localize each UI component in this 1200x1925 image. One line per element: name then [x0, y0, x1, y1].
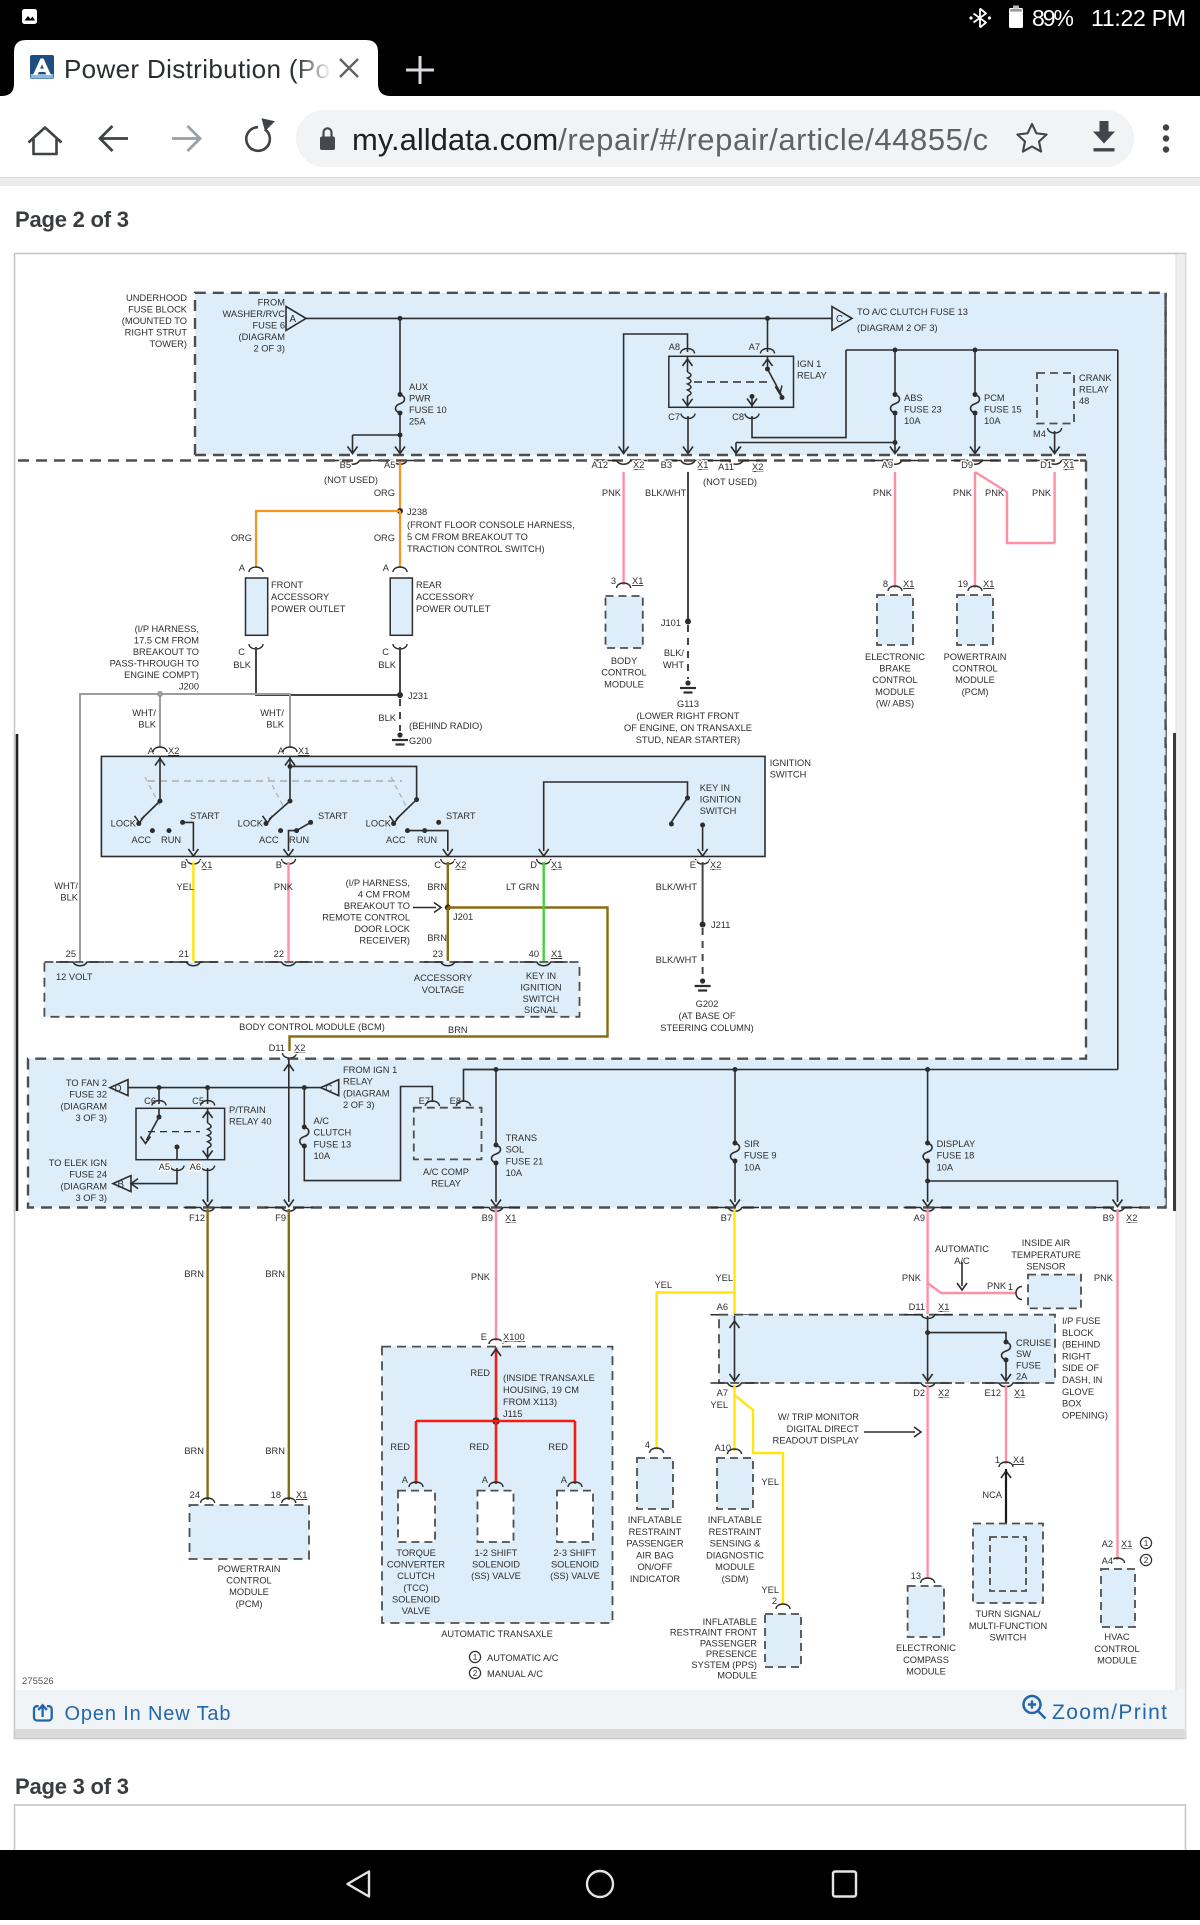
HVAC control module box: [1101, 1569, 1135, 1627]
svg-text:(TCC): (TCC): [403, 1583, 428, 1593]
svg-text:X2: X2: [752, 462, 763, 472]
svg-text:TEMPERATURE: TEMPERATURE: [1011, 1250, 1081, 1260]
fuse F21 TRANS SOL: [494, 1143, 499, 1148]
pin A6 relay: [190, 1162, 215, 1172]
switch 3 feed: [290, 766, 419, 802]
svg-text:RUN: RUN: [289, 835, 309, 845]
svg-text:AUTOMATIC: AUTOMATIC: [935, 1244, 989, 1254]
svg-text:18: 18: [271, 1490, 281, 1500]
svg-text:X2: X2: [938, 1388, 949, 1398]
fan bus wire: [128, 1085, 321, 1090]
interior dashed box top edge: [18, 459, 1086, 461]
wire RED E to J115: [491, 1348, 501, 1422]
switch 2 contacts: [264, 820, 314, 833]
svg-text:X1: X1: [505, 1213, 516, 1223]
android nav bar: [0, 1850, 1200, 1920]
svg-text:BLOCK: BLOCK: [1062, 1328, 1094, 1338]
wire BLK/WHT B3 to J101: [687, 472, 689, 622]
svg-text:RELAY: RELAY: [343, 1077, 373, 1087]
hvac circled 2: [1140, 1554, 1151, 1565]
connector C triangle from IGN1: [321, 1080, 339, 1096]
svg-text:(DIAGRAM: (DIAGRAM: [61, 1101, 108, 1111]
svg-text:PWR: PWR: [409, 394, 431, 404]
svg-text:C: C: [434, 860, 441, 870]
svg-text:10A: 10A: [506, 1168, 523, 1178]
svg-text:FUSE 15: FUSE 15: [984, 405, 1022, 415]
wire DISPLAY feed: [927, 1070, 929, 1144]
svg-text:12 VOLT: 12 VOLT: [56, 972, 93, 982]
svg-text:A: A: [561, 1475, 568, 1485]
wire AC clutch out jog: [304, 1087, 432, 1181]
svg-text:D2: D2: [913, 1388, 925, 1398]
pin D X1 ignition: [530, 859, 562, 870]
wire NCA to turn signal switch: [1005, 1469, 1007, 1537]
svg-text:8: 8: [883, 579, 888, 589]
SDM box: [717, 1458, 753, 1509]
svg-text:A: A: [278, 746, 285, 756]
svg-text:3 OF 3): 3 OF 3): [75, 1193, 107, 1203]
pin 1 sensor: [1008, 1282, 1022, 1300]
svg-text:CONTROL: CONTROL: [1094, 1644, 1139, 1654]
key-in wiper: [669, 798, 688, 827]
svg-text:Page 3 of 3: Page 3 of 3: [15, 1774, 129, 1799]
pin A9 middle: [904, 1208, 952, 1224]
pin F9: [265, 1208, 313, 1224]
svg-text:A11: A11: [718, 462, 734, 472]
svg-text:SIR: SIR: [744, 1139, 760, 1149]
svg-text:1: 1: [1144, 1539, 1149, 1548]
pin 1 X4: [995, 1455, 1025, 1478]
svg-text:RELAY: RELAY: [1079, 385, 1109, 395]
IP fuse block box: [719, 1315, 1055, 1383]
pin 22: [265, 949, 313, 966]
svg-text:X2: X2: [710, 860, 721, 870]
footer bar: [15, 1690, 1184, 1729]
svg-text:MANUAL A/C: MANUAL A/C: [487, 1669, 543, 1679]
svg-text:YEL: YEL: [715, 1273, 733, 1283]
svg-text:SENSING &: SENSING &: [710, 1539, 761, 1549]
wire PNK D2 to compass: [926, 1385, 928, 1579]
zoom print icon: [1024, 1696, 1046, 1719]
svg-text:A: A: [383, 563, 390, 573]
fuse F13 A/C clutch: [302, 1125, 307, 1130]
wire BRN J201 jog to D11: [290, 908, 608, 1052]
svg-text:1-2 SHIFT: 1-2 SHIFT: [475, 1548, 518, 1558]
svg-text:22: 22: [274, 949, 284, 959]
svg-text:C7: C7: [668, 412, 680, 422]
node J211: [700, 922, 706, 928]
home icon: [29, 128, 62, 155]
fuse F15 PCM wire: [974, 350, 976, 395]
svg-text:STEERING COLUMN): STEERING COLUMN): [660, 1023, 754, 1033]
switch 1 wiper: [135, 801, 161, 823]
svg-text:BRN: BRN: [448, 1025, 468, 1035]
svg-text:FUSE BLOCK: FUSE BLOCK: [128, 305, 188, 315]
svg-text:PNK: PNK: [471, 1272, 491, 1282]
svg-text:2-3 SHIFT: 2-3 SHIFT: [554, 1548, 597, 1558]
wire M4 to D1: [1050, 431, 1060, 454]
svg-text:INSIDE AIR: INSIDE AIR: [1022, 1238, 1071, 1248]
wire SIR to B7: [730, 1161, 740, 1207]
svg-text:E: E: [481, 1332, 487, 1342]
ignition switch box: [101, 756, 765, 856]
svg-text:A2: A2: [1102, 1539, 1113, 1549]
svg-text:OPENING): OPENING): [1062, 1410, 1108, 1420]
svg-text:A6: A6: [190, 1162, 201, 1172]
svg-text:B7: B7: [721, 1213, 732, 1223]
svg-text:A7: A7: [717, 1388, 728, 1398]
switch 2 output to B: [284, 831, 297, 856]
wire branch to B5: [348, 435, 401, 454]
svg-text:FUSE 18: FUSE 18: [937, 1151, 975, 1161]
svg-text:Power Distribution (Po: Power Distribution (Po: [64, 54, 330, 84]
pin 23: [424, 949, 472, 966]
svg-text:11:22 PM: 11:22 PM: [1091, 5, 1186, 31]
menu dots icon: [1163, 124, 1169, 152]
svg-text:AUTOMATIC TRANSAXLE: AUTOMATIC TRANSAXLE: [441, 1629, 553, 1639]
svg-text:IGNITION: IGNITION: [520, 982, 561, 992]
svg-text:MODULE: MODULE: [604, 679, 644, 689]
aux pwr fuse 10 wire: [399, 318, 401, 394]
wire ORG J238 branch: [256, 511, 400, 568]
svg-text:C6: C6: [144, 1096, 156, 1106]
pin D11 X1 fuse block: [904, 1302, 952, 1318]
wire C8 jog to bus: [752, 350, 846, 438]
svg-text:PNK: PNK: [274, 882, 294, 892]
svg-text:40: 40: [529, 949, 539, 959]
svg-text:A12: A12: [591, 460, 608, 470]
svg-text:DIAGNOSTIC: DIAGNOSTIC: [706, 1550, 764, 1560]
svg-text:CONTROL: CONTROL: [226, 1576, 271, 1586]
pin D11 X2: [269, 1043, 306, 1058]
svg-text:X4: X4: [1013, 1455, 1024, 1465]
svg-text:D11: D11: [269, 1043, 285, 1053]
footer bottom shade: [15, 1729, 1184, 1738]
svg-text:AUX: AUX: [409, 382, 428, 392]
connector C triangle to A/C clutch fuse 13: [832, 307, 852, 331]
svg-text:24: 24: [190, 1490, 200, 1500]
accessory bus wire: [464, 1067, 1118, 1072]
svg-text:WHT: WHT: [663, 660, 684, 670]
connector D triangle: [110, 1080, 128, 1096]
body control module component box: [606, 596, 643, 648]
svg-text:INFLATABLE: INFLATABLE: [708, 1515, 762, 1525]
wire WHT/BLK J200 to A X1: [160, 694, 290, 748]
interior left boundary line: [16, 734, 19, 1211]
svg-text:BODY: BODY: [611, 656, 637, 666]
svg-text:PASSENGER: PASSENGER: [626, 1539, 683, 1549]
svg-text:ELECTRONIC: ELECTRONIC: [865, 652, 925, 662]
svg-text:FUSE 13: FUSE 13: [314, 1139, 352, 1149]
wire YEL B7 to A6: [733, 1209, 735, 1314]
pin A7 fuse block: [711, 1383, 759, 1398]
svg-text:READOUT DISPLAY: READOUT DISPLAY: [773, 1436, 859, 1446]
pin A front outlet: [239, 563, 263, 573]
wire RED to 2-3: [574, 1421, 577, 1484]
svg-text:2A: 2A: [1016, 1372, 1028, 1382]
automatic AC pointer arrow: [957, 1262, 967, 1290]
wire A11 tap: [731, 440, 898, 454]
pin B5: [329, 460, 377, 470]
svg-text:89%: 89%: [1032, 5, 1074, 31]
svg-text:RIGHT STRUT: RIGHT STRUT: [125, 328, 188, 338]
svg-text:FUSE 24: FUSE 24: [69, 1170, 107, 1180]
svg-text:(PCM): (PCM): [962, 687, 989, 697]
svg-text:X1: X1: [983, 579, 994, 589]
svg-text:10A: 10A: [984, 416, 1001, 426]
svg-text:LT GRN: LT GRN: [506, 882, 539, 892]
svg-text:CONTROL: CONTROL: [601, 668, 646, 678]
svg-text:13: 13: [911, 1571, 921, 1581]
pin D9: [951, 460, 999, 470]
svg-text:IGNITION: IGNITION: [700, 795, 741, 805]
wire D11 to D2 internal: [923, 1316, 933, 1381]
svg-text:PNK: PNK: [602, 488, 622, 498]
svg-text:TRANS: TRANS: [506, 1133, 538, 1143]
svg-text:SOLENOID: SOLENOID: [392, 1594, 440, 1604]
svg-text:D11: D11: [909, 1302, 925, 1312]
ground G200: [392, 732, 408, 744]
svg-text:AUTOMATIC A/C: AUTOMATIC A/C: [487, 1653, 559, 1663]
svg-text:BLK/WHT: BLK/WHT: [645, 488, 687, 498]
pin M4: [1033, 428, 1062, 439]
switch 3 wiper: [390, 800, 417, 823]
nav home button: [587, 1871, 613, 1897]
AC comp relay box: [414, 1108, 482, 1160]
svg-text:(DIAGRAM: (DIAGRAM: [239, 332, 286, 342]
svg-text:TOWER): TOWER): [149, 339, 187, 349]
wire PNK D9 to PCM: [974, 472, 976, 588]
svg-text:MULTI-FUNCTION: MULTI-FUNCTION: [969, 1621, 1047, 1631]
svg-text:SWITCH: SWITCH: [990, 1633, 1027, 1643]
svg-text:(MOUNTED TO: (MOUNTED TO: [122, 316, 187, 326]
switch 2 run-start link: [297, 822, 311, 830]
svg-text:2: 2: [772, 1596, 777, 1606]
status bar bluetooth icon: [969, 9, 991, 28]
svg-text:DISPLAY: DISPLAY: [937, 1139, 976, 1149]
svg-text:BRN: BRN: [184, 1269, 204, 1279]
svg-text:BRN: BRN: [184, 1446, 204, 1456]
switch 1 output to B X1: [183, 822, 199, 856]
svg-text:A: A: [402, 1475, 409, 1485]
svg-text:BLK: BLK: [378, 713, 396, 723]
svg-text:X1: X1: [1121, 1539, 1132, 1549]
svg-text:J101: J101: [661, 618, 681, 628]
svg-text:J201: J201: [453, 912, 473, 922]
svg-text:MODULE: MODULE: [875, 687, 915, 697]
svg-text:SWITCH: SWITCH: [523, 994, 560, 1004]
svg-text:FUSE 6: FUSE 6: [252, 321, 285, 331]
svg-text:(LOWER RIGHT FRONT: (LOWER RIGHT FRONT: [636, 711, 739, 721]
wire display to A9: [923, 1161, 933, 1207]
PPS module box: [765, 1614, 801, 1667]
svg-text:A9: A9: [882, 460, 893, 470]
reload icon: [246, 118, 275, 151]
svg-text:PNK: PNK: [985, 488, 1005, 498]
powertrain control module top box: [957, 595, 993, 645]
svg-text:F9: F9: [275, 1213, 286, 1223]
svg-text:SIDE OF: SIDE OF: [1062, 1363, 1100, 1373]
svg-text:A: A: [239, 563, 246, 573]
wire A8 feed jog to A12: [619, 334, 688, 454]
1-2 shift solenoid box: [478, 1491, 514, 1542]
svg-text:INFLATABLE: INFLATABLE: [628, 1515, 682, 1525]
svg-text:ORG: ORG: [231, 533, 252, 543]
body control module BCM box: [44, 962, 579, 1017]
svg-text:F12: F12: [189, 1213, 205, 1223]
switch 1 contacts: [136, 820, 185, 833]
svg-text:23: 23: [433, 949, 443, 959]
svg-text:TURN SIGNAL/: TURN SIGNAL/: [975, 1609, 1041, 1619]
svg-text:ORG: ORG: [374, 533, 395, 543]
svg-text:1: 1: [995, 1455, 1000, 1465]
svg-text:PNK: PNK: [987, 1281, 1007, 1291]
svg-text:(AT BASE OF: (AT BASE OF: [679, 1011, 736, 1021]
svg-text:SIGNAL: SIGNAL: [524, 1005, 558, 1015]
pin A5 relay: [159, 1162, 184, 1172]
svg-text:WHT/: WHT/: [260, 708, 284, 718]
wire A5 to elek ign triangle: [131, 1168, 177, 1189]
svg-text:D9: D9: [961, 460, 973, 470]
pin C6: [144, 1096, 166, 1106]
svg-text:Zoom/Print: Zoom/Print: [1052, 1701, 1167, 1724]
wire cruise fuse feed: [928, 1333, 1006, 1342]
active browser tab: [2, 40, 390, 96]
tab title fade: [296, 52, 332, 88]
svg-text:CONTROL: CONTROL: [872, 675, 917, 685]
pin E12 X1: [982, 1383, 1030, 1398]
wire BLK rear: [399, 647, 401, 695]
svg-text:(SS) VALVE: (SS) VALVE: [550, 1571, 600, 1581]
svg-text:RIGHT: RIGHT: [1062, 1351, 1091, 1361]
svg-text:X2: X2: [455, 860, 466, 870]
svg-text:C: C: [325, 1083, 332, 1094]
wire C6 feed: [158, 1088, 160, 1104]
svg-text:TO A/C CLUTCH FUSE 13: TO A/C CLUTCH FUSE 13: [857, 307, 968, 317]
svg-text:(BEHIND: (BEHIND: [1062, 1340, 1101, 1350]
svg-text:C: C: [836, 314, 843, 325]
svg-text:2: 2: [473, 1669, 478, 1678]
svg-text:FUSE 23: FUSE 23: [904, 405, 942, 415]
svg-text:G200: G200: [409, 736, 432, 746]
switch 2 feed: [285, 757, 295, 804]
svg-text:B3: B3: [661, 460, 672, 470]
switch 2 wiper: [263, 801, 291, 823]
front accessory power outlet: [246, 578, 268, 635]
pin 19 X1: [958, 579, 995, 591]
svg-text:10A: 10A: [744, 1162, 761, 1172]
svg-text:(SS) VALVE: (SS) VALVE: [471, 1571, 521, 1581]
bus wire to fuses: [846, 348, 1118, 353]
svg-text:FUSE 10: FUSE 10: [409, 405, 447, 415]
wire PNK A9 to EBCM: [894, 472, 896, 588]
svg-text:ENGINE COMPT): ENGINE COMPT): [124, 670, 199, 680]
pin 24: [190, 1490, 215, 1503]
svg-text:FUSE 32: FUSE 32: [69, 1090, 107, 1100]
svg-text:25: 25: [66, 949, 76, 959]
svg-text:FUSE 9: FUSE 9: [744, 1151, 777, 1161]
svg-text:BLK/WHT: BLK/WHT: [656, 882, 698, 892]
svg-text:(PCM): (PCM): [236, 1599, 263, 1609]
fuse F23 ABS: [893, 392, 898, 397]
svg-text:ACCESSORY: ACCESSORY: [416, 592, 474, 602]
bookmark star icon: [1017, 124, 1046, 152]
trip monitor pointer: [864, 1427, 921, 1437]
svg-text:X1: X1: [632, 576, 643, 586]
svg-text:REMOTE CONTROL: REMOTE CONTROL: [322, 913, 410, 923]
svg-text:BRN: BRN: [427, 933, 447, 943]
svg-text:A8: A8: [669, 342, 680, 352]
svg-text:SENSOR: SENSOR: [1026, 1262, 1066, 1272]
pin C rear outlet: [382, 644, 407, 657]
svg-text:my.alldata.com/repair/#/repair: my.alldata.com/repair/#/repair/article/4…: [352, 122, 988, 157]
fuse F2A cruise sw: [1004, 1340, 1009, 1345]
hvac circled 1: [1140, 1537, 1151, 1548]
svg-text:RESTRAINT: RESTRAINT: [709, 1527, 762, 1537]
svg-text:BRN: BRN: [265, 1446, 285, 1456]
svg-text:AIR BAG: AIR BAG: [636, 1550, 674, 1560]
svg-text:START: START: [318, 811, 348, 821]
powertrain control module box: [190, 1505, 310, 1559]
wire ORG A5 to J238: [399, 462, 401, 511]
svg-text:P/TRAIN: P/TRAIN: [229, 1105, 266, 1115]
svg-text:X100: X100: [503, 1332, 525, 1342]
svg-text:MODULE: MODULE: [906, 1667, 946, 1677]
turn signal switch inner box: [990, 1537, 1026, 1591]
svg-text:INDICATOR: INDICATOR: [630, 1574, 681, 1584]
svg-text:RUN: RUN: [161, 835, 181, 845]
electronic brake control module box: [877, 595, 913, 645]
back arrow icon: [100, 126, 128, 151]
svg-text:START: START: [190, 811, 220, 821]
svg-text:A7: A7: [749, 342, 760, 352]
svg-text:POWERTRAIN: POWERTRAIN: [218, 1564, 281, 1574]
svg-text:MODULE: MODULE: [715, 1562, 755, 1572]
svg-text:HOUSING, 19 CM: HOUSING, 19 CM: [503, 1385, 579, 1395]
svg-text:3 OF 3): 3 OF 3): [75, 1113, 107, 1123]
svg-text:C5: C5: [192, 1096, 204, 1106]
svg-text:J238: J238: [407, 507, 427, 517]
svg-text:B: B: [276, 860, 282, 870]
svg-text:PNK: PNK: [953, 488, 973, 498]
wire BLK/WHT dashed to G202: [702, 928, 704, 977]
svg-text:A6: A6: [717, 1302, 728, 1312]
svg-text:PNK: PNK: [873, 488, 893, 498]
svg-text:C: C: [238, 647, 245, 657]
scrollbar thumb: [1173, 733, 1176, 1211]
svg-text:(SDM): (SDM): [722, 1574, 749, 1584]
pin B9 X1: [472, 1208, 520, 1224]
diagram frame: [15, 254, 1186, 1739]
pin D2 X2: [904, 1383, 952, 1398]
svg-text:A10: A10: [714, 1443, 731, 1453]
svg-text:VOLTAGE: VOLTAGE: [422, 985, 465, 995]
wire YEL A7 branch to PPS: [735, 1395, 784, 1605]
svg-text:WASHER/RVC: WASHER/RVC: [222, 309, 285, 319]
svg-text:2 OF 3): 2 OF 3): [343, 1100, 375, 1110]
svg-text:SOLENOID: SOLENOID: [551, 1560, 599, 1570]
scrollbar track: [1176, 254, 1186, 1738]
svg-text:LOCK: LOCK: [366, 819, 392, 829]
wire PNK branch to sensor: [928, 1283, 1016, 1293]
svg-text:(W/ ABS): (W/ ABS): [876, 698, 914, 708]
turn signal switch outer box: [973, 1524, 1043, 1604]
svg-text:A/C COMP: A/C COMP: [423, 1167, 469, 1177]
svg-text:J231: J231: [408, 691, 428, 701]
nav back button: [348, 1872, 370, 1897]
svg-text:SWITCH: SWITCH: [770, 770, 807, 780]
wire PNK B9X2 to HVAC: [1116, 1209, 1118, 1560]
